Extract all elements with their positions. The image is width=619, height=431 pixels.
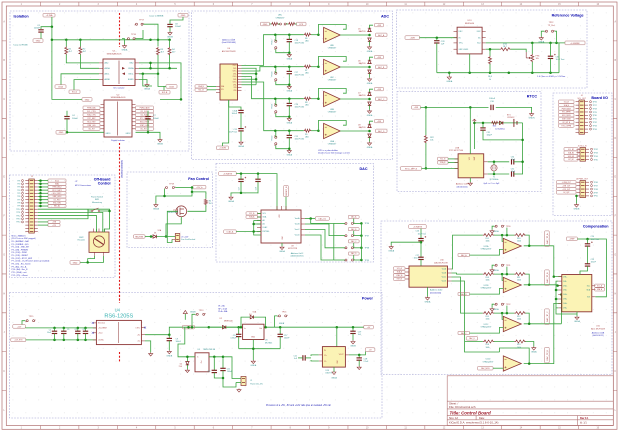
svg-text:AGND: AGND (105, 78, 111, 81)
svg-text:OPA4237: OPA4237 (328, 143, 337, 146)
svg-text:GNDA: GNDA (425, 301, 431, 304)
Vout wire (486, 42, 565, 44)
ground GNDB c9 (167, 350, 171, 354)
resistor R17 (486, 48, 500, 50)
svg-text:P0 - (A3/PA02 - DAC: P0 - (A3/PA02 - DAC (12, 240, 30, 243)
svg-text:D1: D1 (154, 232, 156, 234)
label CINB (166, 85, 177, 89)
svg-text:TP33: TP33 (593, 125, 597, 127)
ground GNDA u10 (427, 287, 429, 296)
vertical label DAC_TP_B (545, 270, 550, 286)
svg-text:BAV199: BAV199 (359, 94, 366, 97)
svg-text:TP17: TP17 (139, 20, 145, 22)
U3 ground rail (239, 348, 281, 350)
IC U13 REF5040 (457, 27, 482, 54)
svg-text:ADC_A: ADC_A (378, 34, 385, 37)
op-amp U8D (318, 89, 346, 99)
svg-text:GNDA: GNDA (367, 114, 373, 117)
svg-text:NC/-Vout: NC/-Vout (98, 322, 105, 325)
ground GNDA (367, 110, 371, 114)
svg-text:DAC_D: DAC_D (469, 337, 476, 340)
svg-text:TP2: TP2 (17, 183, 20, 185)
svg-text:100nF LBD: 100nF LBD (295, 43, 305, 45)
power label +3.3VA comp (409, 225, 427, 229)
svg-text:TP36: TP36 (365, 223, 370, 225)
svg-text:In: In (197, 357, 198, 359)
svg-text:GNDA: GNDA (238, 145, 244, 148)
svg-text:Address 0x0C: Address 0x0C (291, 252, 304, 255)
diode D1 (153, 235, 156, 238)
capacitor C32 (512, 171, 514, 176)
svg-text:+12V_In: +12V_In (196, 187, 202, 189)
svg-text:5V6: 5V6 (179, 366, 182, 368)
wire (40, 32, 42, 39)
svg-text:+5VB_OUT: +5VB_OUT (562, 185, 570, 187)
svg-text:+12V_OUT: +12V_OUT (562, 189, 570, 191)
svg-text:MC7805: MC7805 (265, 342, 272, 344)
svg-text:SCL: SCL (587, 286, 590, 288)
svg-text:Fan FanPinched: Fan FanPinched (181, 239, 195, 241)
output wire (524, 245, 554, 247)
ground GNDB (168, 32, 172, 36)
IC U3 MC7805 (243, 324, 264, 339)
resistor RL8 (483, 340, 495, 343)
svg-text:100k: 100k (486, 347, 490, 349)
ground GNDB u4 (149, 352, 153, 356)
U11 vref wire (588, 239, 607, 297)
ground GNDA buffer (532, 347, 536, 351)
svg-text:CH4-: CH4- (563, 308, 567, 310)
capacitor C2 (53, 327, 56, 330)
svg-text:CH4-: CH4- (233, 84, 237, 86)
svg-text:GNDA: GNDA (279, 250, 285, 253)
svg-text:GNDA: GNDA (531, 351, 537, 354)
C9 (168, 333, 171, 336)
svg-text:100nF: 100nF (72, 118, 79, 120)
svg-text:ADC_C: ADC_C (378, 98, 385, 101)
svg-text:+4.096REF: +4.096REF (570, 43, 580, 45)
resistor R6 (304, 33, 311, 36)
svg-text:Momentary: Momentary (92, 201, 102, 204)
jumper row 3 (345, 259, 347, 261)
svg-text:0.33uF: 0.33uF (231, 337, 238, 339)
svg-text:DAC_TP_B: DAC_TP_B (546, 272, 549, 283)
svg-text:TP4: TP4 (17, 190, 20, 192)
svg-text:VoutD: VoutD (295, 234, 301, 237)
svg-text:ASiz: ASiz (105, 62, 109, 65)
svg-text:I2CB: I2CB (169, 86, 174, 88)
U6 decoupling (229, 100, 241, 110)
svg-text:100nF: 100nF (153, 118, 160, 120)
svg-text:GNDA: GNDA (287, 90, 293, 93)
svg-text:GND: GND (59, 132, 64, 134)
vcc pin (469, 107, 471, 153)
svg-text:TP29: TP29 (593, 112, 597, 114)
capacitor C19 (352, 326, 355, 329)
svg-text:Reference Voltage: Reference Voltage (552, 13, 584, 17)
svg-text:RTCC_MFPB: RTCC_MFPB (562, 125, 571, 127)
svg-text:TP16: TP16 (131, 34, 137, 36)
svg-text:File: DCsControl.sch: File: DCsControl.sch (449, 405, 476, 409)
svg-text:DAC_TP_C: DAC_TP_C (546, 311, 549, 322)
svg-text:TP219: TP219 (271, 40, 273, 45)
svg-text:P1 - (D3/PA11 - SCL: P1 - (D3/PA11 - SCL (12, 243, 29, 246)
svg-text:SCL_B: SCL_B (440, 159, 445, 161)
jumper row 2 (345, 247, 347, 249)
capacitor C12 (213, 357, 215, 371)
section box: Power (10, 293, 383, 419)
label +5VB mid (183, 325, 195, 329)
svg-text:A0: A0 (263, 219, 265, 222)
labels SCL_B SDA_B (438, 157, 449, 160)
svg-text:100nF: 100nF (175, 26, 182, 28)
power label +3V8 rtcc (412, 106, 421, 110)
U9 labels left (246, 212, 258, 215)
svg-text:TP10: TP10 (16, 209, 20, 211)
vbat branch (474, 123, 522, 149)
svg-text:C5: C5 (67, 329, 69, 331)
resistor RL5 (483, 312, 495, 315)
svg-text:TP45: TP45 (594, 159, 598, 161)
label LDAC_A (224, 230, 237, 233)
connector J3 (175, 234, 180, 242)
svg-text:100nF: 100nF (284, 337, 290, 339)
svg-text:TP32: TP32 (593, 122, 597, 124)
section box: ADC (192, 11, 393, 160)
svg-text:GND: GND (181, 15, 186, 17)
svg-text:TP38: TP38 (365, 248, 370, 250)
resistor R18 (489, 56, 492, 64)
resistor R1 (65, 47, 68, 55)
capacitor C8 (167, 24, 172, 26)
svg-text:TP222: TP222 (271, 136, 273, 141)
U5 out (209, 357, 223, 369)
svg-text:GNDA: GNDA (279, 322, 285, 325)
svg-text:GND2: GND2 (126, 133, 131, 135)
ground GNDA comp (389, 246, 393, 250)
svg-text:SCL_B: SCL_B (198, 90, 204, 92)
svg-text:D2: D2 (220, 318, 222, 320)
svg-text:GND: GND (85, 99, 90, 101)
capacitor C17 tant (238, 179, 243, 181)
ground J1 (227, 386, 229, 388)
svg-text:Board I/O: Board I/O (591, 96, 608, 100)
jumper row 1 (345, 235, 347, 237)
capacitor C8 (84, 327, 87, 330)
svg-text:TP30: TP30 (593, 115, 597, 117)
ground GNDA (239, 141, 243, 145)
svg-text:RSTSEL: RSTSEL (263, 231, 270, 233)
svg-text:P8 - (D5) - Enc_Switch: P8 - (D5) - Enc_Switch (12, 263, 31, 266)
label GND (82, 98, 92, 102)
svg-text:TP47: TP47 (594, 185, 598, 187)
svg-text:1x BatWear: 1x BatWear (495, 127, 505, 130)
svg-text:1.80nF: 1.80nF (489, 98, 496, 100)
section box: Board I/O (553, 93, 612, 216)
label RTCC_MFP_B (401, 167, 422, 171)
svg-text:-5V_OUT: -5V_OUT (563, 192, 570, 194)
svg-text:GNDA: GNDA (250, 364, 256, 367)
ground U14 (333, 367, 335, 372)
op-amp U12D (503, 356, 521, 371)
svg-text:10k: 10k (430, 140, 433, 142)
svg-text:LBD: LBD (305, 41, 309, 43)
svg-text:CH1+: CH1+ (563, 276, 567, 278)
svg-text:RS6-1205S: RS6-1205S (104, 314, 133, 320)
op-amp U8C (318, 57, 346, 67)
resistor R11G (514, 273, 526, 276)
svg-text:TP11: TP11 (16, 212, 20, 214)
vertical label DAC_TP_A (545, 231, 550, 247)
svg-text:Power Switch: Power Switch (91, 195, 103, 198)
svg-text:TP5: TP5 (17, 193, 20, 195)
label DAC_A (348, 215, 359, 218)
svg-text:RESET_B: RESET_B (286, 186, 288, 196)
svg-text:GNDA: GNDA (493, 308, 499, 311)
capacitor C23 (585, 264, 590, 266)
capacitor C33 (548, 56, 553, 58)
svg-text:G: G (614, 254, 616, 256)
svg-text:Address 0x6F: Address 0x6F (456, 183, 469, 186)
svg-text:TrFq: TrFq (459, 43, 463, 45)
svg-text:TP50: TP50 (594, 196, 598, 198)
svg-text:LDAC: LDAC (263, 226, 268, 229)
svg-text:1k: 1k (489, 79, 491, 81)
power label +3V8 (375, 119, 384, 122)
resistor R7 (304, 65, 311, 68)
vertical label RESET_B (284, 186, 289, 197)
svg-text:P10 - (A4) - Enc_B: P10 - (A4) - Enc_B (12, 268, 29, 271)
section box: Fan Control (127, 172, 213, 248)
svg-text:Control: Control (98, 182, 111, 186)
svg-text:P5 - (D11) - RESET: P5 - (D11) - RESET (12, 255, 29, 257)
wire (420, 37, 458, 39)
svg-text:STAT_LEDB: STAT_LEDB (140, 124, 150, 127)
svg-text:U7A: U7A (455, 146, 460, 149)
svg-text:C12: C12 (207, 371, 210, 373)
svg-text:'Coax to RSSB: 'Coax to RSSB (13, 44, 28, 47)
svg-text:100k: 100k (517, 318, 521, 320)
isolation barrier dashed line (upper) (119, 13, 121, 47)
svg-text:100pF: 100pF (487, 135, 493, 137)
capacitor C28 (434, 41, 439, 43)
test point jumper TP30 (495, 225, 497, 227)
svg-text:ADC: ADC (381, 14, 389, 18)
svg-text:GND: GND (73, 262, 78, 264)
svg-text:TP48: TP48 (594, 189, 598, 191)
svg-text:C16: C16 (255, 187, 257, 190)
-Vo wire (145, 341, 151, 353)
svg-text:Date:: Date: (479, 417, 485, 420)
svg-text:GNDB: GNDB (574, 209, 580, 211)
buffer stage U12D (500, 348, 530, 364)
svg-text:GNDA: GNDA (388, 250, 394, 253)
svg-text:GND_B2: GND_B2 (568, 156, 574, 158)
capacitor C1 (38, 30, 43, 32)
svg-text:(P0..P5 etc as DNC pegged): (P0..P5 etc as DNC pegged) (12, 237, 36, 240)
capacitor C27 (418, 257, 423, 259)
ground GNDA (490, 269, 494, 273)
resistor R13 (514, 340, 526, 343)
J2 rows to encoder/switch (38, 209, 110, 225)
svg-text:Vout: Vout (477, 42, 481, 45)
bottom rail (437, 72, 559, 74)
svg-text:TP16: TP16 (282, 312, 287, 314)
capacitor C11 (220, 368, 225, 370)
label ADC_B (376, 65, 388, 69)
svg-text:ASDA: ASDA (105, 67, 111, 70)
svg-text:10uF Tant: 10uF Tant (418, 232, 427, 235)
svg-text:10uF Tant: 10uF Tant (591, 238, 600, 241)
svg-text:78M5-2WL3B: 78M5-2WL3B (203, 349, 216, 351)
svg-text:J3 +12V: J3 +12V (181, 236, 189, 238)
section box: RTCC (397, 92, 541, 192)
svg-text:100nF: 100nF (176, 341, 182, 343)
svg-text:GNDA: GNDA (367, 82, 373, 85)
svg-text:BAV199: BAV199 (359, 62, 366, 65)
svg-text:Size: A3: Size: A3 (449, 417, 458, 420)
svg-text:TP1: TP1 (17, 180, 20, 182)
ground GNDA (367, 46, 371, 50)
svg-text:U4: U4 (115, 308, 121, 313)
jumper row 0 (345, 222, 347, 224)
svg-text:I2CA: I2CA (58, 86, 63, 89)
svg-text:CH4+: CH4+ (563, 303, 567, 305)
wire right rail (160, 98, 181, 100)
svg-text:PLA = 80A: PLA = 80A (218, 310, 228, 313)
svg-text:+12V_RTN: +12V_RTN (14, 340, 23, 342)
label -5V (365, 348, 375, 352)
svg-text:GNDB: GNDB (157, 144, 163, 146)
output wire (524, 323, 562, 325)
svg-text:32.768kHz: 32.768kHz (489, 179, 498, 181)
svg-text:C1-: C1- (324, 361, 327, 363)
svg-text:P12 - (P5) - cReset: P12 - (P5) - cReset (12, 274, 29, 277)
resistor R5 (204, 199, 207, 205)
svg-text:470k: 470k (503, 44, 507, 46)
svg-text:10uF Tant: 10uF Tant (229, 130, 238, 133)
svg-text:+3V8: +3V8 (377, 89, 381, 91)
svg-text:TP31: TP31 (593, 119, 597, 121)
label ADC_C (376, 97, 388, 101)
svg-text:RST_B: RST_B (397, 279, 402, 281)
svg-text:W = 6A: W = 6A (218, 305, 225, 308)
svg-text:6pF <= Ct <= 9pF: 6pF <= Ct <= 9pF (484, 182, 501, 185)
svg-text:100k: 100k (486, 279, 490, 281)
svg-text:DNC: DNC (459, 31, 464, 33)
wire (163, 86, 165, 90)
svg-text:TP39: TP39 (365, 260, 370, 262)
svg-text:P3 - (D8) - PWM2N: P3 - (D8) - PWM2N (12, 249, 29, 251)
svg-text:VOUT: VOUT (339, 354, 344, 356)
svg-text:Encoder: Encoder (78, 240, 86, 242)
label DAC_C (348, 240, 359, 243)
svg-text:STAT_LED: STAT_LED (87, 124, 96, 127)
svg-text:SCL_CTRL: SCL_CTRL (87, 111, 96, 113)
svg-text:C6: C6 (75, 329, 77, 331)
svg-text:TP9: TP9 (17, 206, 20, 208)
label DAC_D input (466, 337, 478, 340)
svg-text:(0b1101011): (0b1101011) (592, 335, 603, 337)
svg-text:VSS: VSS (233, 87, 236, 89)
svg-text:GNDA: GNDA (287, 154, 293, 157)
label GND (70, 261, 80, 265)
svg-text:P2 - (D4) - GND_INT: P2 - (D4) - GND_INT (12, 247, 30, 249)
svg-text:DAC/MCP4728: DAC/MCP4728 (434, 261, 449, 264)
test point jumper TP32 (495, 303, 497, 305)
transistor Q1 MOSFET (176, 206, 187, 217)
svg-text:J: J (615, 332, 616, 334)
label DAC_D (348, 252, 359, 255)
svg-text:TP3: TP3 (17, 187, 20, 189)
IC U2 digital isolator (104, 100, 132, 137)
svg-text:100k: 100k (517, 347, 521, 349)
svg-text:U12D: U12D (486, 359, 491, 361)
svg-text:Out: Out (259, 327, 262, 330)
svg-text:Power: Power (362, 297, 374, 301)
svg-text:I2C isolator: I2C isolator (113, 86, 124, 89)
power label +3V8 (375, 87, 384, 90)
svg-text:VoutB: VoutB (295, 223, 301, 226)
svg-text:TP14: TP14 (16, 222, 20, 224)
svg-text:R25: R25 (493, 126, 496, 128)
svg-text:I2C_INT_B: I2C_INT_B (562, 122, 570, 124)
wire tp18 left to gnda (156, 189, 165, 204)
title block (447, 376, 613, 426)
svg-text:OPAmp2337: OPAmp2337 (481, 248, 492, 251)
ADC channel 1 wiring (242, 35, 304, 66)
svg-text:BGND: BGND (128, 79, 134, 81)
label GND (178, 13, 188, 17)
wire battery right (522, 123, 524, 140)
section box: Isolation (10, 11, 189, 151)
ground GNDA (122, 45, 126, 49)
svg-text:GNDN: GNDN (529, 118, 535, 120)
stage outputs down to U11 (554, 246, 562, 277)
label DAC_A input (458, 253, 470, 256)
svg-text:GNDA: GNDA (331, 376, 337, 379)
DAC output jumper rows (311, 219, 334, 224)
ground GNDA u9 (281, 243, 283, 246)
svg-text:CH2+: CH2+ (563, 285, 567, 287)
svg-text:KiCad E.D.A. eeschema (5.1.6-: KiCad E.D.A. eeschema (5.1.6-0-10_14) (449, 421, 498, 425)
capacitor C6 (77, 327, 80, 330)
section box: Off-Board Control (10, 175, 116, 278)
svg-text:+3.3VA/OB: +3.3VA/OB (223, 173, 233, 176)
svg-text:TP27: TP27 (593, 105, 597, 107)
ground GNDA (287, 149, 291, 153)
svg-text:SCL_OUT: SCL_OUT (578, 98, 587, 100)
svg-text:GNDB: GNDB (350, 346, 356, 348)
U14 out (345, 354, 349, 356)
svg-text:TP6: TP6 (17, 196, 20, 198)
svg-text:VoutC: VoutC (295, 228, 301, 231)
svg-text:U12C: U12C (484, 324, 489, 326)
svg-text:TP26: TP26 (593, 102, 597, 104)
svg-text:TP28: TP28 (593, 108, 597, 110)
test point jumper TP31 (495, 264, 497, 266)
svg-text:+3V8: +3V8 (377, 121, 381, 123)
svg-text:RTC_MFPB: RTC_MFPB (562, 112, 570, 114)
wire (170, 17, 183, 24)
capacitor C31 (480, 128, 485, 130)
crystal circuit (484, 161, 488, 163)
svg-text:P4 - (D10) - PWM: P4 - (D10) - PWM (12, 252, 27, 254)
svg-text:GNDA: GNDA (228, 200, 234, 203)
ground GNDA (448, 73, 450, 76)
svg-text:+Vo: +Vo (137, 335, 140, 337)
label DAC_B input (458, 292, 470, 295)
